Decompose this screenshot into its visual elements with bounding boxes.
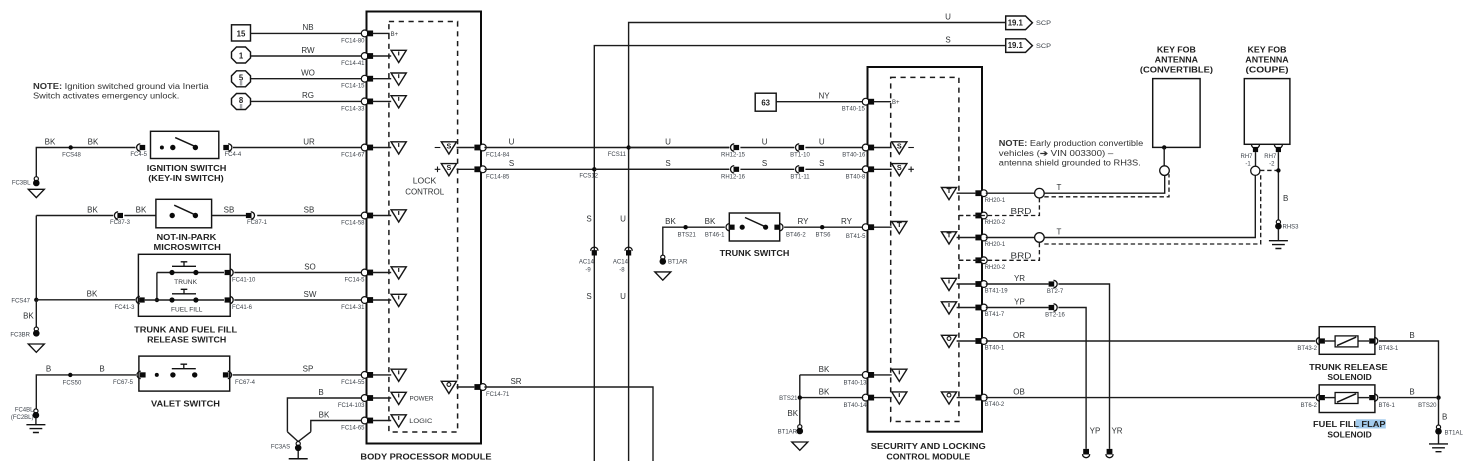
- connector octagon 8: [232, 94, 251, 111]
- wire BRD shield coupe: [959, 175, 1261, 261]
- wire B BTS20 to BT1AL: [1439, 398, 1448, 425]
- wire SR from FC14-71: [484, 377, 653, 461]
- svg-text:FC14-58: FC14-58: [341, 221, 365, 227]
- svg-text:BK: BK: [787, 409, 798, 418]
- svg-text:BK: BK: [23, 312, 34, 321]
- svg-text:BK: BK: [87, 290, 98, 299]
- svg-text:FC14-85: FC14-85: [486, 174, 510, 180]
- svg-text:FC14-84: FC14-84: [486, 153, 510, 159]
- svg-text:RY: RY: [841, 217, 853, 226]
- svg-text:FC87-3: FC87-3: [110, 220, 131, 226]
- svg-text:BK: BK: [136, 205, 147, 214]
- junction FCS12: [579, 167, 598, 180]
- svg-text:FC14-103: FC14-103: [338, 403, 365, 409]
- svg-text:vehicles (➔ VIN 003300) –: vehicles (➔ VIN 003300) –: [999, 149, 1114, 158]
- svg-text:FCS47: FCS47: [11, 298, 30, 304]
- svg-text:BK: BK: [819, 388, 830, 397]
- wire T convertible antenna: [986, 175, 1165, 198]
- svg-text:BT41-5: BT41-5: [846, 234, 866, 240]
- svg-text:BT46-2: BT46-2: [786, 233, 806, 239]
- wire BK to BT40-13: [800, 365, 863, 375]
- pin FC14-80: [361, 30, 398, 38]
- ground BT1AR: [655, 255, 688, 280]
- wire OR BT40-1 to trunk release solenoid: [986, 331, 1316, 341]
- svg-text:CONTROL MODULE: CONTROL MODULE: [886, 453, 970, 461]
- svg-text:63: 63: [761, 98, 770, 107]
- connector FC67-5: [113, 371, 146, 386]
- pin RH20-2: [959, 212, 1006, 226]
- pin RH7-1: [1240, 144, 1259, 175]
- svg-text:ANTENNA: ANTENNA: [1155, 56, 1199, 65]
- wire BK to BT40-14 from BTS21: [787, 375, 863, 425]
- svg-text:FC67-5: FC67-5: [113, 380, 134, 386]
- off-page tag 19.1 SCP lower: [1006, 39, 1051, 53]
- svg-text:AC14: AC14: [579, 259, 595, 265]
- junction FCS48: [62, 145, 81, 158]
- svg-text:FC4-4: FC4-4: [225, 152, 242, 158]
- svg-text:FC14-80: FC14-80: [341, 38, 365, 44]
- junction FCS11: [608, 145, 631, 158]
- svg-text:RH7: RH7: [1240, 154, 1253, 160]
- svg-text:BK: BK: [87, 205, 98, 214]
- pin BT41-19: [941, 278, 1008, 294]
- svg-text:S: S: [586, 215, 591, 224]
- pin FC14-33: [361, 96, 406, 108]
- svg-text:S: S: [509, 159, 514, 168]
- svg-text:S: S: [945, 36, 950, 45]
- wire BK left rail to not-in-park switch: [36, 205, 156, 299]
- svg-text:FCS48: FCS48: [62, 153, 81, 159]
- svg-text:SECURITY AND LOCKING: SECURITY AND LOCKING: [871, 442, 986, 451]
- svg-text:BT46-1: BT46-1: [705, 233, 725, 239]
- svg-text:FC3BR: FC3BR: [10, 332, 30, 338]
- wire RW to FC14-41: [251, 46, 366, 67]
- svg-text:RH20-2: RH20-2: [985, 220, 1006, 226]
- svg-text:(KEY-IN SWITCH): (KEY-IN SWITCH): [148, 174, 224, 183]
- svg-text:B: B: [1409, 331, 1414, 340]
- svg-text:SB: SB: [224, 205, 235, 214]
- wire B trunk solenoid to BTS20: [1379, 331, 1439, 398]
- valet switch: [139, 356, 230, 408]
- wire SO to FC14-5: [234, 262, 365, 283]
- wire SW to FC14-31: [234, 290, 365, 311]
- svg-text:WO: WO: [301, 69, 315, 78]
- svg-text:KEY FOB: KEY FOB: [1248, 46, 1287, 55]
- svg-text:RW: RW: [301, 46, 315, 55]
- svg-text:T: T: [1057, 227, 1062, 236]
- pin FC14-103: [361, 392, 434, 404]
- connector RH12-16: [721, 166, 746, 181]
- svg-text:II: II: [239, 104, 243, 110]
- svg-text:FC4-5: FC4-5: [130, 152, 147, 158]
- pin FC14-31: [361, 294, 406, 306]
- svg-text:BT40-16: BT40-16: [842, 153, 866, 159]
- trunk release solenoid: [1297, 327, 1399, 383]
- connector AC14-8: [613, 247, 632, 273]
- wire B to FC14-103 POWER: [287, 388, 365, 432]
- pin FC14-71 output: [441, 381, 486, 393]
- wire YP BT41-7 to BT2-16: [986, 298, 1049, 308]
- wire S from FC14-85: [484, 168, 729, 170]
- svg-text:VALET SWITCH: VALET SWITCH: [151, 399, 220, 408]
- svg-text:SO: SO: [304, 262, 316, 271]
- svg-text:RH20-1: RH20-1: [985, 198, 1006, 204]
- connector FC67-4: [223, 371, 256, 386]
- svg-text:UR: UR: [303, 137, 315, 146]
- svg-text:RH12-16: RH12-16: [721, 174, 746, 180]
- svg-text:SCP: SCP: [1036, 21, 1051, 27]
- svg-text:B: B: [99, 365, 104, 374]
- svg-text:BTS21: BTS21: [779, 396, 798, 402]
- svg-text:-9: -9: [585, 267, 591, 273]
- svg-text:BK: BK: [819, 365, 830, 374]
- pin FC14-15: [361, 73, 406, 85]
- svg-text:19.1: 19.1: [1008, 41, 1024, 50]
- wire shield link RH7-1 to B: [1260, 169, 1278, 171]
- svg-text:RHS3: RHS3: [1283, 225, 1300, 231]
- wire S vertical to SCP: [586, 36, 1005, 461]
- svg-text:BTS20: BTS20: [1418, 403, 1437, 409]
- svg-text:S: S: [665, 159, 670, 168]
- svg-text:FC87-1: FC87-1: [247, 220, 268, 226]
- wire WO to FC14-15: [251, 69, 366, 90]
- ground BT1AR lower: [778, 425, 808, 451]
- junction BTS6: [815, 225, 831, 239]
- svg-text:FC41-10: FC41-10: [232, 277, 256, 283]
- svg-text:B: B: [1409, 388, 1414, 397]
- svg-text:OB: OB: [1013, 388, 1025, 397]
- pin RH20-2: [959, 257, 1006, 271]
- svg-text:RH20-1: RH20-1: [985, 242, 1006, 248]
- svg-text:TRUNK AND FUEL FILL: TRUNK AND FUEL FILL: [134, 326, 237, 335]
- connector box 15: [232, 25, 251, 41]
- svg-text:FC14-55: FC14-55: [341, 380, 365, 386]
- svg-text:BT2-16: BT2-16: [1045, 313, 1065, 319]
- svg-text:FUEL FILL: FUEL FILL: [171, 308, 203, 314]
- pin BT40-15 B+: [862, 98, 900, 106]
- pin FC14-67: [361, 142, 406, 154]
- svg-text:BT2-7: BT2-7: [1047, 289, 1064, 295]
- junction BTS21 trunk: [678, 225, 697, 239]
- connector RH12-15: [721, 144, 746, 159]
- connector FC41-3: [114, 296, 144, 311]
- svg-text:antenna shield grounded to RH3: antenna shield grounded to RH3S.: [999, 158, 1141, 167]
- pin BT40-13: [843, 369, 906, 386]
- svg-text:U: U: [509, 137, 515, 146]
- connector BT1-11: [790, 166, 810, 181]
- wire B RH7-2 to RHS3: [1276, 152, 1288, 220]
- wire NB to FC14-80: [251, 23, 366, 44]
- svg-text:BT40-14: BT40-14: [843, 403, 867, 409]
- svg-text:B+: B+: [391, 32, 399, 38]
- connector YP end: [1083, 449, 1090, 458]
- svg-text:FCS12: FCS12: [579, 174, 598, 180]
- svg-text:S: S: [586, 292, 591, 301]
- svg-text:U: U: [945, 12, 951, 21]
- svg-text:19.1: 19.1: [1008, 18, 1024, 27]
- svg-text:AC14: AC14: [613, 259, 629, 265]
- svg-text:1: 1: [239, 52, 244, 61]
- svg-text:BK: BK: [319, 410, 330, 419]
- svg-text:-2: -2: [1269, 162, 1275, 168]
- connector AC14-9: [579, 247, 598, 273]
- svg-text:RY: RY: [798, 217, 810, 226]
- svg-text:B: B: [318, 388, 323, 397]
- svg-text:BRD: BRD: [1011, 251, 1032, 260]
- svg-text:T: T: [1057, 183, 1062, 192]
- svg-text:U: U: [620, 215, 626, 224]
- svg-text:FC4BL: FC4BL: [15, 408, 34, 414]
- svg-text:FC14-5: FC14-5: [344, 278, 365, 284]
- svg-text:(COUPE): (COUPE): [1246, 66, 1290, 75]
- pin FC14-65: [361, 415, 433, 427]
- svg-text:BT43-1: BT43-1: [1379, 346, 1399, 352]
- connector BT2-16: [1045, 304, 1065, 319]
- svg-text:II: II: [239, 82, 243, 88]
- wire YR down: [1058, 284, 1122, 449]
- svg-text:FCS50: FCS50: [63, 380, 82, 386]
- connector FC4-5: [130, 144, 147, 158]
- svg-text:BT40-15: BT40-15: [842, 107, 866, 113]
- connector YR end: [1106, 449, 1113, 458]
- key fob antenna convertible: [1140, 46, 1214, 176]
- svg-text:BT40-13: BT40-13: [843, 380, 867, 386]
- svg-text:BK: BK: [45, 137, 56, 146]
- trunk and fuel fill release switch: [134, 254, 237, 344]
- wire BK left rail to ignition switch: [36, 137, 135, 177]
- svg-text:BT40-2: BT40-2: [985, 402, 1005, 408]
- svg-text:RH7: RH7: [1264, 154, 1277, 160]
- wire SB through FC87-1 to FC14-58: [212, 205, 366, 226]
- svg-text:FC67-4: FC67-4: [235, 380, 256, 386]
- trunk switch: [720, 213, 790, 258]
- connector BT1-10: [790, 144, 810, 159]
- wire BK FCS47 to FC41-3: [36, 290, 135, 300]
- svg-text:YR: YR: [1111, 427, 1122, 436]
- pin BT40-14: [843, 392, 906, 409]
- svg-text:Switch activates emergency unl: Switch activates emergency unlock.: [33, 91, 179, 100]
- svg-text:BT40-8: BT40-8: [846, 174, 866, 180]
- wire BK to trunk switch: [663, 217, 725, 256]
- connector FC87-1: [246, 212, 268, 226]
- svg-text:IGNITION SWITCH: IGNITION SWITCH: [147, 164, 227, 173]
- svg-text:SOLENOID: SOLENOID: [1327, 373, 1372, 382]
- svg-text:U: U: [620, 292, 626, 301]
- wire S row FCS12 to BT40-8: [594, 159, 863, 169]
- svg-text:FC41-3: FC41-3: [114, 305, 135, 311]
- svg-text:BT1AR: BT1AR: [668, 260, 688, 266]
- connector FC4-4: [223, 144, 242, 158]
- svg-text:SCP: SCP: [1036, 44, 1051, 50]
- svg-text:LOGIC: LOGIC: [409, 419, 433, 425]
- pin RH20-1: [941, 188, 1006, 204]
- svg-text:BTS6: BTS6: [815, 233, 831, 239]
- svg-text:BT1AR: BT1AR: [778, 430, 798, 436]
- connector BT46-1: [705, 224, 735, 239]
- wire BK down to FC3BR: [23, 300, 36, 328]
- body processor module: [360, 12, 491, 461]
- junction FCS47: [11, 298, 38, 305]
- ground FC3BR: [10, 327, 44, 352]
- svg-text:TRUNK RELEASE: TRUNK RELEASE: [1309, 363, 1388, 372]
- svg-text:B: B: [1442, 413, 1447, 422]
- svg-text:BT41-7: BT41-7: [985, 312, 1005, 318]
- svg-text:NOT-IN-PARK: NOT-IN-PARK: [157, 233, 217, 242]
- pin FC14-84 lock control minus: [435, 141, 486, 154]
- svg-text:YP: YP: [1090, 427, 1101, 436]
- ground FC3BL: [12, 177, 44, 198]
- svg-text:FC14-33: FC14-33: [341, 106, 365, 112]
- connector FC87-3: [110, 212, 131, 226]
- svg-text:FC14-67: FC14-67: [341, 153, 365, 159]
- svg-text:B+: B+: [892, 100, 900, 106]
- junction BTS20: [1418, 395, 1441, 408]
- svg-text:(FC2BL): (FC2BL): [11, 415, 34, 421]
- svg-text:SW: SW: [304, 290, 317, 299]
- wire U from FC14-84: [484, 147, 729, 149]
- wire BRD shield convertible: [959, 174, 1169, 216]
- svg-text:BT1-11: BT1-11: [790, 174, 810, 180]
- pin FC14-41: [361, 50, 406, 62]
- svg-text:LOCK: LOCK: [413, 177, 437, 186]
- svg-text:NB: NB: [302, 23, 313, 32]
- connector FC41-10: [225, 269, 256, 284]
- connector BT2-7: [1047, 280, 1064, 295]
- svg-text:YR: YR: [1014, 274, 1025, 283]
- svg-text:RELEASE SWITCH: RELEASE SWITCH: [147, 336, 227, 345]
- svg-text:(CONVERTIBLE): (CONVERTIBLE): [1140, 66, 1214, 75]
- wire SP to FC14-55: [233, 365, 366, 386]
- svg-text:FC14-71: FC14-71: [486, 392, 510, 398]
- wire YP down: [1058, 308, 1100, 449]
- not-in-park microswitch: [154, 199, 222, 252]
- svg-text:NY: NY: [818, 92, 830, 101]
- svg-text:BRD: BRD: [1011, 207, 1032, 216]
- wire NY to BT40-15: [776, 92, 865, 113]
- svg-text:U: U: [819, 137, 825, 146]
- pin FC14-85 lock control plus: [435, 163, 486, 176]
- pin BT41-7: [941, 302, 1005, 318]
- pin BT40-1: [941, 335, 1005, 351]
- pin BT40-8 lock plus: [846, 163, 914, 180]
- wire U vertical to SCP: [620, 12, 1006, 461]
- svg-text:S: S: [762, 159, 767, 168]
- svg-text:RH20-2: RH20-2: [985, 265, 1006, 271]
- svg-text:FC14-15: FC14-15: [341, 84, 365, 90]
- svg-text:BT41-19: BT41-19: [985, 289, 1009, 295]
- connector BT46-2: [774, 224, 806, 239]
- svg-text:BT6-2: BT6-2: [1301, 403, 1318, 409]
- svg-text:FC14-31: FC14-31: [341, 305, 365, 311]
- svg-text:SP: SP: [303, 365, 314, 374]
- ground BT1AL: [1429, 425, 1464, 452]
- svg-text:CONTROL: CONTROL: [405, 187, 445, 196]
- junction BTS21: [779, 395, 802, 402]
- wire B left rail to valet switch: [36, 365, 136, 410]
- note: early production convertible: [999, 139, 1144, 167]
- svg-text:TRUNK SWITCH: TRUNK SWITCH: [720, 249, 790, 258]
- connector octagon 5: [232, 71, 251, 88]
- wire U row FCS11 to BT40-16: [629, 137, 864, 147]
- svg-text:TRUNK: TRUNK: [174, 280, 197, 286]
- svg-text:B: B: [46, 365, 51, 374]
- svg-text:FUEL FILL FLAP: FUEL FILL FLAP: [1313, 420, 1386, 429]
- svg-text:FC3AS: FC3AS: [271, 445, 290, 451]
- svg-text:FCS11: FCS11: [608, 152, 627, 158]
- svg-text:BTS21: BTS21: [678, 233, 697, 239]
- pin BT40-2: [941, 392, 1005, 408]
- svg-text:NOTE: Ignition switched groun: NOTE: Ignition switched ground via Inert…: [33, 82, 209, 91]
- svg-text:-1: -1: [1245, 162, 1251, 168]
- svg-text:YP: YP: [1014, 298, 1025, 307]
- svg-text:U: U: [665, 137, 671, 146]
- wire RG to FC14-33: [251, 91, 366, 112]
- svg-text:SR: SR: [510, 377, 521, 386]
- svg-text:FC14-41: FC14-41: [341, 61, 365, 67]
- pin FC14-55: [361, 369, 406, 381]
- wire B fuel solenoid to BTS20: [1379, 388, 1436, 398]
- svg-text:FC3BL: FC3BL: [12, 180, 31, 186]
- pin RH7-2: [1264, 144, 1282, 167]
- pin RH20-1: [941, 232, 1006, 248]
- svg-text:B: B: [1283, 194, 1288, 203]
- ground FC3AS: [271, 432, 311, 461]
- svg-text:BK: BK: [88, 137, 99, 146]
- pin BT40-16 lock minus: [842, 141, 914, 158]
- svg-text:KEY FOB: KEY FOB: [1157, 46, 1196, 55]
- svg-text:RH12-15: RH12-15: [721, 153, 746, 159]
- svg-text:-8: -8: [619, 267, 625, 273]
- ground FC4BL (FC2BL): [11, 408, 46, 433]
- svg-text:OR: OR: [1013, 331, 1025, 340]
- security and locking control module: [868, 67, 986, 461]
- key fob antenna coupe: [1244, 46, 1290, 145]
- svg-text:POWER: POWER: [410, 397, 435, 403]
- connector box 63: [755, 93, 776, 111]
- svg-text:BODY PROCESSOR MODULE: BODY PROCESSOR MODULE: [360, 452, 491, 461]
- pin FC14-5: [361, 267, 406, 279]
- svg-text:BT40-1: BT40-1: [985, 346, 1005, 352]
- svg-text:RG: RG: [302, 91, 314, 100]
- wire YR BT41-19 to BT2-7: [986, 274, 1049, 284]
- svg-text:BK: BK: [665, 217, 676, 226]
- svg-text:FC14-65: FC14-65: [341, 426, 365, 432]
- off-page tag 19.1 SCP upper: [1006, 16, 1051, 30]
- connector octagon 1: [232, 47, 251, 63]
- wire BK to FC14-65 LOGIC: [311, 410, 365, 432]
- fuel fill flap solenoid: [1301, 385, 1396, 439]
- wire T coupe antenna: [986, 176, 1256, 243]
- pin BT41-5 trunk input: [862, 222, 907, 234]
- svg-text:NOTE: Early production conver: NOTE: Early production convertible: [999, 139, 1144, 148]
- junction FCS50: [63, 373, 82, 387]
- svg-text:BT6-1: BT6-1: [1379, 403, 1396, 409]
- connector FC41-6: [225, 296, 253, 311]
- svg-text:BT1AL: BT1AL: [1445, 431, 1464, 437]
- svg-text:S: S: [819, 159, 824, 168]
- ground RHS3: [1269, 220, 1299, 249]
- svg-text:MICROSWITCH: MICROSWITCH: [154, 243, 222, 252]
- svg-text:FC41-6: FC41-6: [232, 305, 253, 311]
- svg-text:15: 15: [237, 30, 246, 39]
- svg-text:BK: BK: [705, 217, 716, 226]
- svg-text:BT43-2: BT43-2: [1297, 346, 1317, 352]
- note: ignition switched ground: [33, 82, 209, 101]
- svg-text:BT1-10: BT1-10: [790, 153, 810, 159]
- svg-text:U: U: [762, 137, 768, 146]
- wire RY to BT41-5: [784, 217, 866, 240]
- svg-text:SB: SB: [304, 205, 315, 214]
